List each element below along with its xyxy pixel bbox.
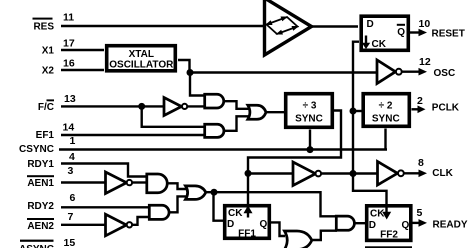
svg-text:RES: RES: [33, 21, 54, 32]
svg-text:4: 4: [69, 151, 75, 163]
svg-text:CK: CK: [228, 208, 243, 219]
svg-text:OSCILLATOR: OSCILLATOR: [109, 60, 174, 71]
svg-text:11: 11: [63, 12, 74, 24]
svg-text:X2: X2: [42, 65, 55, 76]
svg-text:8: 8: [418, 157, 424, 169]
svg-text:RDY2: RDY2: [27, 201, 54, 212]
svg-text:RDY1: RDY1: [27, 159, 54, 170]
svg-text:7: 7: [68, 211, 74, 223]
svg-text:D: D: [367, 19, 374, 30]
svg-text:CLK: CLK: [432, 168, 453, 179]
svg-text:1: 1: [70, 135, 76, 147]
svg-text:10: 10: [419, 18, 431, 30]
svg-text:D: D: [227, 219, 234, 230]
svg-text:D: D: [369, 220, 376, 231]
svg-text:F/C: F/C: [38, 102, 54, 113]
svg-text:EF1: EF1: [36, 130, 55, 141]
svg-text:ASYNC: ASYNC: [19, 244, 54, 248]
svg-text:X1: X1: [42, 46, 55, 57]
svg-text:13: 13: [64, 93, 76, 105]
svg-text:CSYNC: CSYNC: [19, 144, 54, 155]
svg-text:16: 16: [63, 57, 75, 69]
svg-text:14: 14: [63, 122, 75, 134]
svg-text:PCLK: PCLK: [432, 103, 460, 114]
svg-text:Q: Q: [397, 27, 405, 38]
svg-text:÷ 2: ÷ 2: [379, 101, 393, 112]
svg-text:Q: Q: [402, 220, 410, 231]
svg-text:OSC: OSC: [434, 68, 456, 79]
svg-text:READY: READY: [433, 220, 468, 231]
svg-text:÷ 3: ÷ 3: [303, 101, 317, 112]
svg-text:XTAL: XTAL: [129, 49, 154, 60]
svg-text:2: 2: [417, 95, 423, 107]
svg-text:FF1: FF1: [238, 228, 256, 239]
svg-text:3: 3: [68, 165, 74, 177]
svg-text:SYNC: SYNC: [372, 113, 400, 124]
svg-text:RESET: RESET: [432, 28, 465, 39]
svg-text:17: 17: [63, 38, 75, 50]
svg-text:CK: CK: [372, 39, 387, 50]
svg-text:CK: CK: [370, 208, 385, 219]
svg-text:SYNC: SYNC: [295, 113, 323, 124]
svg-text:12: 12: [419, 56, 431, 68]
svg-text:6: 6: [70, 192, 76, 204]
svg-text:AEN1: AEN1: [27, 178, 54, 189]
svg-text:AEN2: AEN2: [27, 221, 54, 232]
svg-text:5: 5: [417, 207, 423, 219]
svg-text:Q: Q: [260, 219, 268, 230]
svg-text:15: 15: [64, 237, 76, 248]
svg-text:FF2: FF2: [380, 230, 398, 241]
